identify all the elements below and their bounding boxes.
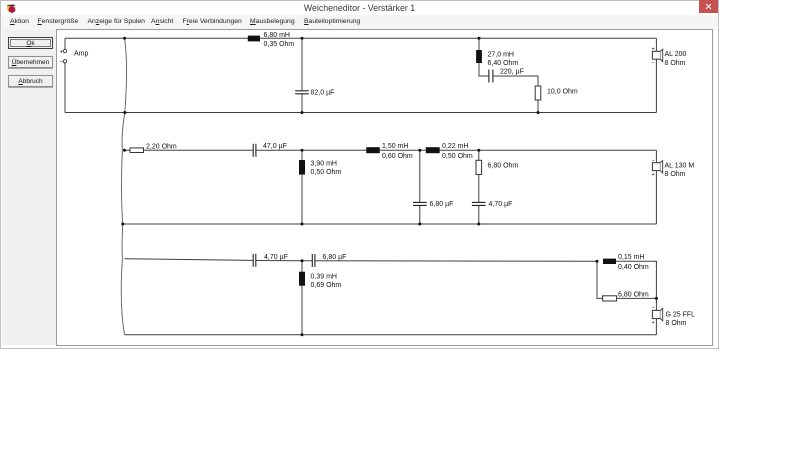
svg-text:AL 200: AL 200 xyxy=(665,51,687,58)
svg-text:−: − xyxy=(60,60,64,66)
resistor 2,20 Ohm body xyxy=(130,148,144,153)
junction resistor 6,80 Ohm / top rail 2 xyxy=(477,149,480,152)
svg-text:10,0 Ohm: 10,0 Ohm xyxy=(547,89,578,96)
inductor 0,22mH body xyxy=(426,147,440,153)
junction inductor 27mH / top rail 1 xyxy=(478,37,481,40)
svg-text:0,60 Ohm: 0,60 Ohm xyxy=(382,153,413,160)
svg-text:−: − xyxy=(652,306,655,312)
junction inductor 0,15mH parallel branch xyxy=(596,260,599,263)
capacitor 220uF plates xyxy=(489,70,493,83)
inductor 0,39mH body xyxy=(299,272,305,286)
junction resistor 10 Ohm / bottom rail 1 xyxy=(537,111,540,114)
svg-text:0,35 Ohm: 0,35 Ohm xyxy=(264,41,295,48)
capacitor 6,80uF section 3 plates xyxy=(312,254,315,267)
wire section 3 parallel resistor branch xyxy=(597,261,656,298)
svg-text:Amp: Amp xyxy=(74,51,89,58)
wire speaker AL 200 to bottom rail xyxy=(655,59,657,112)
free connection bus curve xyxy=(121,38,126,335)
wire top rail section 1 xyxy=(65,37,656,39)
wire right drop to speaker AL 200 xyxy=(655,38,657,51)
wire speaker G 25 FFL drop xyxy=(655,298,657,334)
wire top rail section 2 xyxy=(125,149,657,151)
svg-text:8 Ohm: 8 Ohm xyxy=(666,320,687,327)
resistor 10 Ohm body xyxy=(535,86,541,100)
junction bus / top rail 2 xyxy=(123,149,126,152)
svg-text:8 Ohm: 8 Ohm xyxy=(665,60,686,67)
svg-text:0,50 Ohm: 0,50 Ohm xyxy=(311,169,342,176)
title bar xyxy=(1,1,718,15)
speaker G 25 FFL xyxy=(652,306,663,326)
app icon xyxy=(7,4,16,13)
wire amp plus lead xyxy=(64,38,66,49)
wire 27mH inductor to cap 220uF xyxy=(479,63,489,76)
speaker AL 200 xyxy=(652,46,663,66)
junction inductor 0,39mH / bottom rail 3 xyxy=(301,333,304,336)
svg-text:47,0 µF: 47,0 µF xyxy=(263,143,287,150)
junction inductor 3,90mH / top rail 2 xyxy=(301,149,304,152)
Abbruch button xyxy=(8,75,53,87)
inductor 1,50mH body xyxy=(366,147,380,153)
junction capacitor 6,80uF / top rail 2 xyxy=(418,149,421,152)
svg-text:0,22 mH: 0,22 mH xyxy=(442,143,468,150)
wire bottom rail section 2 xyxy=(123,223,657,225)
resistor 6,80 Ohm section 2 body xyxy=(476,160,482,174)
amp minus terminal xyxy=(63,60,66,63)
junction bus / top rail 1 xyxy=(123,37,126,40)
amp plus terminal xyxy=(63,49,66,52)
wire top rail section 3 xyxy=(125,259,598,262)
svg-text:0,50 Ohm: 0,50 Ohm xyxy=(442,153,473,160)
svg-text:+: + xyxy=(652,172,655,178)
capacitor 4,70uF section 3 plates xyxy=(253,254,256,267)
svg-text:0,39 mH: 0,39 mH xyxy=(311,274,337,281)
wire shunt inductor 3,90mH xyxy=(301,150,303,224)
junction capacitor 82uF / top rail 1 xyxy=(301,37,304,40)
svg-text:6,40 Ohm: 6,40 Ohm xyxy=(488,60,519,67)
menu bar xyxy=(1,15,718,30)
inductor 6,80mH body xyxy=(248,36,260,42)
svg-text:+: + xyxy=(652,320,655,326)
inductor 3,90mH body xyxy=(299,160,305,175)
svg-text:6,80 Ohm: 6,80 Ohm xyxy=(488,163,519,170)
svg-text:82,0 µF: 82,0 µF xyxy=(311,90,335,97)
svg-text:3,90 mH: 3,90 mH xyxy=(311,161,337,168)
resistor 6,80 Ohm section 3 body xyxy=(603,296,617,301)
svg-text:+: + xyxy=(652,46,655,52)
inductor 27mH body xyxy=(476,50,482,63)
capacitor 82uF plates xyxy=(295,91,309,94)
capacitor 4,70uF section 2 plates xyxy=(472,202,486,205)
junction inductor 0,39mH / top rail 3 xyxy=(301,259,304,262)
capacitor 47uF plates xyxy=(253,144,256,157)
Ok button xyxy=(8,37,53,49)
wire 27mH branch vertical xyxy=(478,38,480,50)
inductor 0,15mH body xyxy=(603,259,616,264)
wire bottom rail section 3 xyxy=(125,334,657,336)
wire shunt capacitor 6,80uF section 2 xyxy=(419,150,421,224)
close button xyxy=(699,0,718,13)
Übernehmen button xyxy=(8,56,53,68)
left button panel xyxy=(2,30,56,345)
junction bus / bottom rail 1 xyxy=(123,111,126,114)
junction capacitor 4,70uF / bottom rail 2 xyxy=(477,223,480,226)
junction inductor 3,90mH / bottom rail 2 xyxy=(301,223,304,226)
capacitor 6,80uF section 2 plates xyxy=(413,202,427,205)
wire section 3 inductor 0,15mH to right corner xyxy=(616,261,656,298)
svg-text:220, µF: 220, µF xyxy=(500,69,524,76)
svg-text:+: + xyxy=(60,49,64,55)
speaker AL 130 M xyxy=(652,158,663,178)
svg-text:6,80 µF: 6,80 µF xyxy=(323,254,347,261)
svg-text:0,15 mH: 0,15 mH xyxy=(618,254,644,261)
junction capacitor 6,80uF / bottom rail 2 xyxy=(418,223,421,226)
svg-text:27,0 mH: 27,0 mH xyxy=(488,52,514,59)
svg-text:2,20 Ohm: 2,20 Ohm xyxy=(146,144,177,151)
svg-text:1,50 mH: 1,50 mH xyxy=(382,143,408,150)
svg-text:8 Ohm: 8 Ohm xyxy=(665,171,686,178)
wire shunt capacitor 82uF bottom xyxy=(301,94,303,112)
svg-text:AL 130 M: AL 130 M xyxy=(665,163,695,170)
wire shunt R 6,80 Ohm + C 4,70uF section 2 xyxy=(478,150,480,224)
wire resistor 10 Ohm to bottom rail xyxy=(537,100,539,113)
wire bottom rail section 1 xyxy=(65,112,656,114)
wire cap 220uF to resistor 10 Ohm xyxy=(493,76,538,86)
svg-text:−: − xyxy=(652,158,655,164)
svg-text:4,70 µF: 4,70 µF xyxy=(489,201,513,208)
junction resistor 6,80 Ohm parallel branch xyxy=(655,297,658,300)
svg-text:6,80 mH: 6,80 mH xyxy=(264,32,290,39)
schematic canvas xyxy=(56,29,713,346)
svg-text:6,80 µF: 6,80 µF xyxy=(430,201,454,208)
wire amp minus lead xyxy=(64,63,66,113)
junction capacitor 82uF / bottom rail 1 xyxy=(301,111,304,114)
junction bus / bottom rail 2 xyxy=(121,223,124,226)
wire right drop to speaker AL 130 M xyxy=(655,150,657,163)
svg-text:6,80 Ohm: 6,80 Ohm xyxy=(618,291,649,298)
wire shunt capacitor 82uF top xyxy=(301,38,303,90)
wire shunt inductor 0,39mH xyxy=(301,261,303,335)
svg-text:−: − xyxy=(652,61,655,67)
wire speaker AL 130 M to bottom rail xyxy=(655,171,657,224)
svg-text:4,70 µF: 4,70 µF xyxy=(264,254,288,261)
svg-text:0,69 Ohm: 0,69 Ohm xyxy=(311,282,342,289)
svg-text:0,40 Ohm: 0,40 Ohm xyxy=(618,264,649,271)
svg-text:G 25 FFL: G 25 FFL xyxy=(666,311,696,318)
